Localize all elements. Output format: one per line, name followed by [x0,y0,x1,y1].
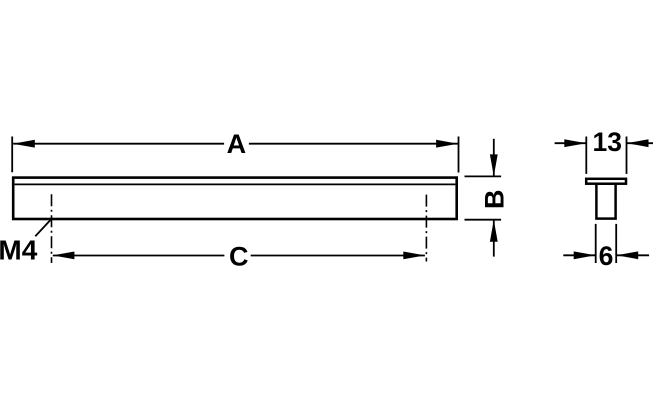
dimension 13 left arrowhead [564,139,586,147]
svg-text:M4: M4 [0,234,38,265]
left screw hole centerline [51,194,53,263]
dimension 6 left arrowhead [574,251,596,259]
svg-text:B: B [480,189,510,209]
dimension B lower arrowhead [490,220,498,242]
bar flange inner edge line [15,183,456,185]
handle bar front view outline [13,178,457,219]
dimension C right arrowhead [403,252,425,260]
svg-text:6: 6 [599,241,614,271]
dimension A left extension line [11,137,13,173]
dimension 6 right extension line [615,224,617,263]
svg-text:A: A [227,129,247,159]
svg-text:C: C [229,242,249,272]
dimension 13 right extension line [626,137,628,174]
dimension 6 left arrow line [563,254,595,256]
dimension A left arrowhead [13,140,35,148]
right screw hole centerline [425,195,427,262]
dimension A right extension line [458,137,460,173]
dimension B bottom extension line [465,219,502,221]
dimension 6 left extension line [595,224,597,263]
dimension 6 right arrowhead [616,251,638,259]
dimension B lower arrow line [493,220,495,257]
dimension C line left segment [53,255,225,257]
dimension 13 left arrow line [555,142,587,144]
dimension 13 left extension line [585,137,587,174]
dimension 13 right arrowhead [627,139,649,147]
cross-section stem outline [596,184,615,219]
dimension 13 right arrow line [627,142,653,144]
dimension A line left segment [13,143,224,145]
dimension C left arrowhead [53,252,75,260]
dimension B top extension line [465,175,502,177]
svg-text:13: 13 [592,127,621,157]
cross-section flange outline [586,179,626,184]
M4 leader line [35,219,51,236]
dimension A line right segment [249,143,458,145]
dimension A right arrowhead [436,140,458,148]
dimension B upper arrow line [493,139,495,177]
dimension 6 right arrow line [616,254,649,256]
dimension C line right segment [251,255,425,257]
dimension B upper arrowhead [490,154,498,176]
